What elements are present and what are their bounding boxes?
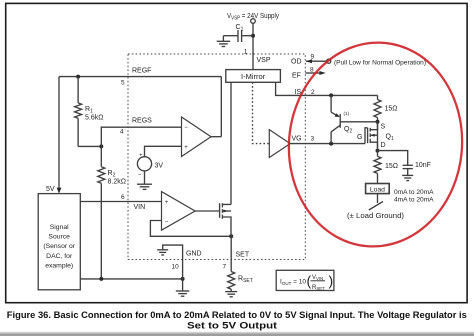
svg-text:Load: Load	[370, 186, 385, 193]
svg-text:−: −	[165, 219, 169, 225]
svg-text:10: 10	[172, 264, 180, 271]
svg-text:3: 3	[311, 136, 315, 143]
svg-text:G: G	[357, 134, 362, 141]
svg-text:GND: GND	[186, 251, 202, 258]
svg-text:5V: 5V	[46, 186, 55, 193]
svg-text:VIN: VIN	[134, 204, 146, 211]
svg-text:+: +	[139, 153, 142, 159]
svg-text:R2: R2	[108, 170, 116, 179]
svg-text:15Ω: 15Ω	[385, 106, 398, 113]
svg-text:+: +	[165, 200, 169, 206]
svg-text:10nF: 10nF	[415, 162, 431, 169]
svg-text:OD: OD	[291, 59, 302, 66]
svg-text:IS: IS	[295, 89, 302, 96]
svg-text:4: 4	[120, 129, 124, 136]
svg-text:5.6kΩ: 5.6kΩ	[85, 115, 103, 122]
svg-text:S: S	[381, 124, 386, 131]
svg-text:example): example)	[45, 263, 73, 270]
svg-text:VVIN: VVIN	[312, 275, 323, 281]
svg-text:R1: R1	[85, 106, 93, 115]
svg-text:(: (	[307, 273, 312, 289]
svg-text:Figure 36. Basic Connection f: Figure 36. Basic Connection for 0mA to 2…	[7, 310, 467, 320]
svg-text:0mA to 20mA: 0mA to 20mA	[394, 189, 434, 196]
svg-text:1: 1	[244, 49, 248, 56]
svg-text:D: D	[381, 142, 386, 149]
svg-text:8.2kΩ: 8.2kΩ	[108, 179, 126, 186]
svg-text:8: 8	[310, 67, 314, 74]
svg-text:(Pull Low for Normal Operation: (Pull Low for Normal Operation)	[334, 60, 426, 67]
svg-text:IOUT = 10: IOUT = 10	[280, 279, 306, 286]
svg-text:9: 9	[311, 54, 315, 61]
svg-text:15Ω: 15Ω	[385, 163, 398, 170]
svg-text:+: +	[184, 145, 188, 151]
svg-text:−: −	[184, 125, 188, 131]
svg-text:2: 2	[311, 89, 315, 96]
svg-text:I-Mirror: I-Mirror	[241, 72, 266, 81]
svg-text:VG: VG	[292, 136, 302, 143]
svg-text:Q2: Q2	[344, 126, 352, 135]
svg-text:DAC, for: DAC, for	[46, 253, 73, 260]
svg-text:REGF: REGF	[132, 68, 151, 75]
svg-text:Signal: Signal	[50, 224, 69, 231]
svg-text:Q1: Q1	[386, 134, 394, 143]
svg-text:RSET: RSET	[312, 285, 325, 291]
svg-text:(Sensor or: (Sensor or	[43, 243, 75, 250]
svg-text:C1: C1	[236, 24, 244, 33]
svg-text:(1): (1)	[344, 111, 350, 116]
svg-text:Source: Source	[48, 234, 70, 241]
svg-text:SET: SET	[236, 252, 250, 259]
svg-text:5: 5	[121, 80, 125, 87]
svg-text:6: 6	[121, 194, 125, 201]
svg-text:Set to 5V Output: Set to 5V Output	[187, 321, 277, 331]
svg-text:(± Load Ground): (± Load Ground)	[347, 213, 404, 220]
svg-text:VVSP = 24V Supply: VVSP = 24V Supply	[227, 13, 279, 22]
svg-text:REGS: REGS	[132, 118, 152, 125]
svg-text:4mA to 20mA: 4mA to 20mA	[394, 197, 434, 204]
svg-text:VSP: VSP	[257, 57, 271, 64]
svg-text:RSET: RSET	[238, 276, 253, 285]
svg-text:7: 7	[223, 264, 227, 271]
svg-text:EF: EF	[292, 73, 301, 80]
svg-text:−: −	[138, 173, 141, 179]
svg-text:3V: 3V	[155, 163, 164, 170]
svg-text:): )	[329, 273, 334, 289]
